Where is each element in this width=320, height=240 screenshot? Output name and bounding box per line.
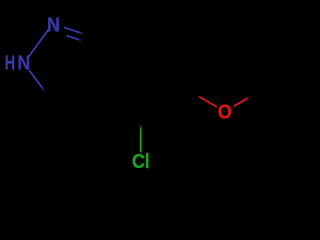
svg-text:C: C <box>132 151 146 173</box>
svg-text:N: N <box>17 53 30 75</box>
svg-text:H: H <box>5 53 16 75</box>
svg-text:O: O <box>218 102 232 124</box>
svg-text:N: N <box>47 15 60 37</box>
